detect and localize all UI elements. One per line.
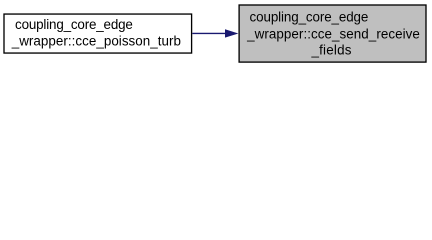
svg-text:_wrapper::cce_poisson_turb: _wrapper::cce_poisson_turb [11,34,181,49]
svg-text:coupling_core_edge: coupling_core_edge [250,10,369,25]
svg-text:_fields: _fields [310,43,351,58]
svg-text:_wrapper::cce_send_receive: _wrapper::cce_send_receive [246,26,420,41]
svg-text:coupling_core_edge: coupling_core_edge [15,17,133,32]
